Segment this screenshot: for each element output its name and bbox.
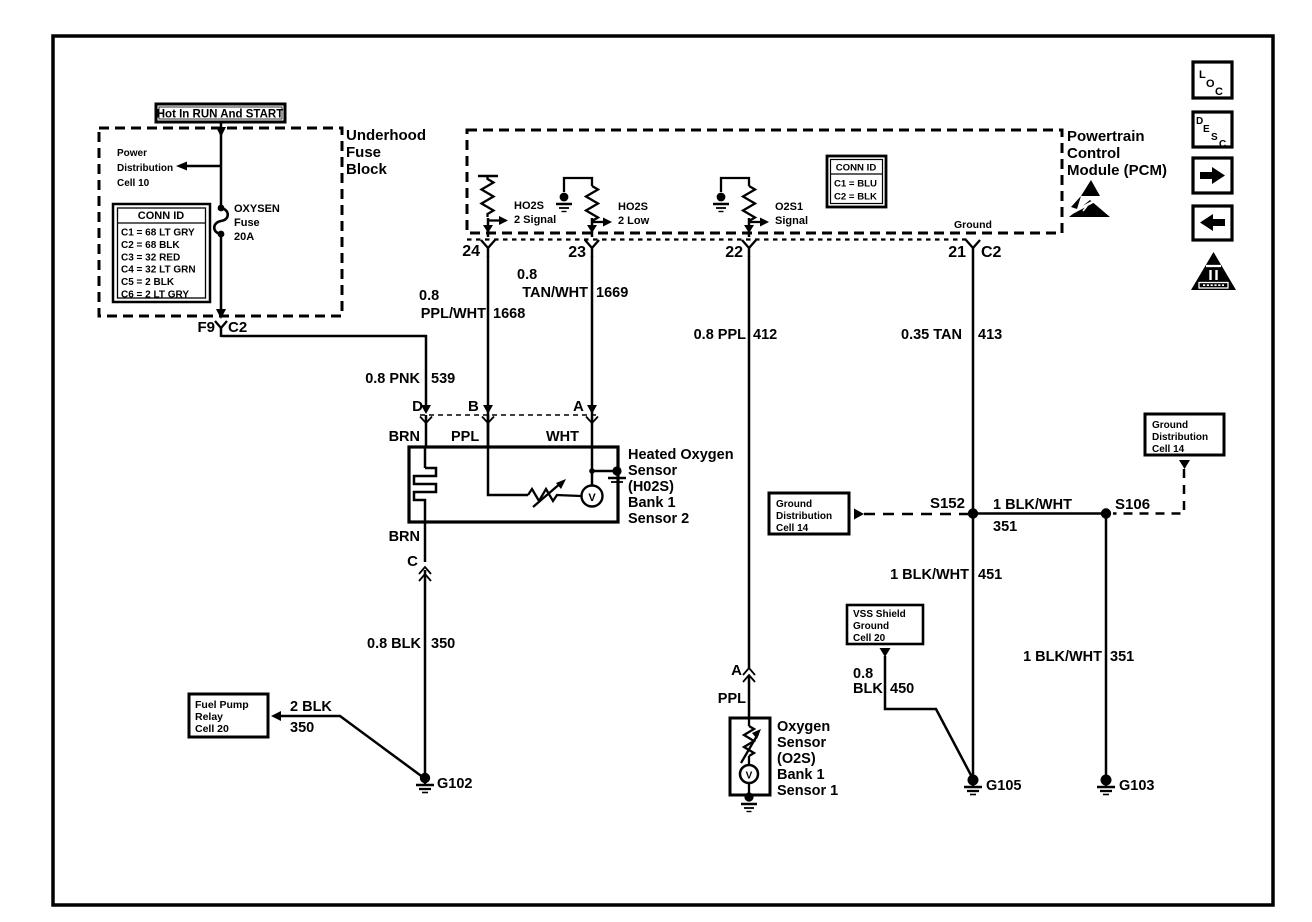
oxygen sensor O2S box bbox=[730, 718, 770, 795]
svg-text:C: C bbox=[1215, 86, 1223, 98]
connector row D B A (dashed) bbox=[420, 414, 598, 416]
ESD sensitivity symbol bbox=[1068, 180, 1110, 217]
icon back arrow bbox=[1193, 206, 1232, 240]
svg-text:G103: G103 bbox=[1119, 778, 1154, 794]
svg-text:Cell 20: Cell 20 bbox=[853, 633, 886, 644]
svg-text:L: L bbox=[1199, 69, 1206, 81]
wire 2 BLK 350 from fuel pump relay bbox=[271, 699, 424, 778]
svg-text:F9: F9 bbox=[197, 319, 215, 336]
fuse OXYSEN 20A bbox=[214, 203, 280, 243]
svg-text:1669: 1669 bbox=[596, 285, 628, 301]
svg-text:C4 = 32 LT GRN: C4 = 32 LT GRN bbox=[121, 265, 196, 276]
svg-text:Ground: Ground bbox=[853, 621, 889, 632]
svg-text:Power: Power bbox=[117, 148, 147, 159]
label Oxygen Sensor (O2S) Bank 1 Sensor 1 bbox=[777, 719, 838, 799]
svg-text:Sensor 1: Sensor 1 bbox=[777, 783, 838, 799]
svg-text:D: D bbox=[412, 398, 423, 415]
svg-text:Fuse: Fuse bbox=[346, 144, 381, 161]
svg-text:A: A bbox=[731, 662, 742, 679]
svg-text:O2S1: O2S1 bbox=[775, 201, 803, 213]
svg-text:(O2S): (O2S) bbox=[777, 751, 816, 767]
svg-text:0.8: 0.8 bbox=[853, 666, 873, 682]
svg-text:1 BLK/WHT: 1 BLK/WHT bbox=[890, 567, 969, 583]
svg-text:0.8: 0.8 bbox=[419, 288, 439, 304]
svg-text:21: 21 bbox=[948, 244, 966, 261]
svg-text:Distribution: Distribution bbox=[117, 163, 173, 174]
internal ground (HO2S case) bbox=[608, 466, 626, 482]
svg-text:B: B bbox=[468, 398, 479, 415]
label Heated Oxygen Sensor (H02S) Bank 1 Sensor 2 bbox=[628, 447, 734, 527]
svg-text:Cell 20: Cell 20 bbox=[195, 723, 229, 735]
svg-text:BLK: BLK bbox=[853, 681, 883, 697]
svg-text:C1 = 68 LT GRY: C1 = 68 LT GRY bbox=[121, 228, 195, 239]
svg-text:1 BLK/WHT: 1 BLK/WHT bbox=[1023, 649, 1102, 665]
svg-text:C1 = BLU: C1 = BLU bbox=[834, 179, 877, 190]
svg-text:A: A bbox=[573, 398, 584, 415]
wire 0.8 BLK 350 to G102 bbox=[367, 570, 455, 777]
PCM internal resistor O2S1 Signal with ground bbox=[713, 178, 808, 237]
svg-text:Ground: Ground bbox=[776, 499, 812, 510]
ground distribution box (left) bbox=[769, 493, 849, 534]
underhood fuse block dashed box bbox=[99, 128, 342, 316]
svg-text:413: 413 bbox=[978, 327, 1002, 343]
svg-text:350: 350 bbox=[290, 720, 314, 736]
svg-text:S152: S152 bbox=[930, 495, 965, 512]
splice S106 bbox=[1101, 496, 1150, 519]
svg-text:Cell 14: Cell 14 bbox=[776, 523, 809, 534]
svg-text:Oxygen: Oxygen bbox=[777, 719, 830, 735]
svg-text:351: 351 bbox=[993, 519, 1017, 535]
svg-text:1 BLK/WHT: 1 BLK/WHT bbox=[993, 497, 1072, 513]
svg-text:Relay: Relay bbox=[195, 711, 223, 723]
svg-text:0.8: 0.8 bbox=[517, 267, 537, 283]
PCM internal resistor HO2S 2 Low with ground bbox=[556, 178, 650, 237]
wire B into HO2S bbox=[488, 415, 528, 495]
svg-text:2 Low: 2 Low bbox=[618, 215, 650, 227]
wire S152 to S106, circuit 1 BLK/WHT 351 bbox=[973, 497, 1106, 535]
ground G105 bbox=[964, 775, 1021, 795]
svg-text:20A: 20A bbox=[234, 231, 254, 243]
svg-text:BRN: BRN bbox=[389, 429, 420, 445]
icon LOC bbox=[1193, 62, 1232, 98]
svg-text:Block: Block bbox=[346, 161, 388, 178]
svg-text:E: E bbox=[1203, 124, 1210, 135]
svg-text:0.35 TAN: 0.35 TAN bbox=[901, 327, 962, 343]
svg-text:539: 539 bbox=[431, 371, 455, 387]
wire C2 to connector D, circuit 0.8 PNK 539 bbox=[221, 336, 455, 408]
svg-text:Signal: Signal bbox=[775, 215, 808, 227]
svg-text:CONN ID: CONN ID bbox=[138, 210, 185, 222]
connector A (O2S) bbox=[718, 662, 755, 718]
svg-text:451: 451 bbox=[978, 567, 1002, 583]
svg-text:2 Signal: 2 Signal bbox=[514, 214, 556, 226]
wire S152 to G105, circuit 1 BLK/WHT 451 bbox=[890, 514, 1002, 780]
wire A into HO2S to internal ground bbox=[589, 415, 616, 474]
svg-text:Ground: Ground bbox=[954, 219, 992, 231]
svg-text:350: 350 bbox=[431, 636, 455, 652]
wire pin 23 to A, circuit 0.8 TAN/WHT 1669 bbox=[517, 256, 628, 415]
icon forward arrow bbox=[1193, 158, 1232, 193]
svg-text:Ground: Ground bbox=[1152, 420, 1188, 431]
svg-text:Underhood: Underhood bbox=[346, 127, 426, 144]
splice S152 bbox=[930, 495, 978, 519]
label Powertrain Control Module (PCM) bbox=[1067, 128, 1167, 179]
svg-text:412: 412 bbox=[753, 327, 777, 343]
O2S voltage source V bbox=[740, 765, 758, 796]
svg-text:C6 = 2 LT GRY: C6 = 2 LT GRY bbox=[121, 290, 189, 301]
svg-text:0.8 BLK: 0.8 BLK bbox=[367, 636, 422, 652]
svg-text:450: 450 bbox=[890, 681, 914, 697]
connector A (top) bbox=[546, 398, 598, 445]
svg-text:C2 = 68 BLK: C2 = 68 BLK bbox=[121, 240, 180, 251]
connector table CONN ID (PCM) bbox=[827, 156, 886, 207]
pin 21 connector C2 bbox=[948, 240, 1001, 261]
dashed wire S106 to ground distribution (right) bbox=[1113, 460, 1190, 514]
svg-text:22: 22 bbox=[725, 244, 743, 261]
svg-text:G102: G102 bbox=[437, 776, 472, 792]
svg-text:Sensor: Sensor bbox=[628, 463, 678, 479]
pin 24 connector bbox=[462, 240, 495, 260]
wire pin 22 to O2S, circuit 0.8 PPL 412 bbox=[694, 256, 778, 668]
connector B bbox=[451, 398, 494, 445]
svg-text:(H02S): (H02S) bbox=[628, 479, 674, 495]
wire hot feed into fuse block bbox=[220, 122, 223, 208]
svg-text:BRN: BRN bbox=[389, 529, 420, 545]
svg-text:VSS Shield: VSS Shield bbox=[853, 609, 906, 620]
svg-text:Module (PCM): Module (PCM) bbox=[1067, 162, 1167, 179]
heater element inside HO2S bbox=[414, 447, 436, 522]
svg-text:Fuel Pump: Fuel Pump bbox=[195, 699, 249, 711]
svg-text:Hot In RUN And START: Hot In RUN And START bbox=[157, 109, 283, 121]
svg-text:C3 = 32 RED: C3 = 32 RED bbox=[121, 252, 180, 263]
svg-text:S106: S106 bbox=[1115, 496, 1150, 513]
pin 22 connector bbox=[725, 240, 756, 261]
svg-text:Distribution: Distribution bbox=[1152, 432, 1208, 443]
svg-text:Powertrain: Powertrain bbox=[1067, 128, 1145, 145]
label Hot In RUN And START bbox=[156, 104, 285, 122]
svg-text:Fuse: Fuse bbox=[234, 217, 260, 229]
wire fuse to fuse-block edge bbox=[220, 234, 223, 312]
svg-text:C2: C2 bbox=[981, 244, 1002, 261]
svg-text:0.8 PNK: 0.8 PNK bbox=[365, 371, 420, 387]
wire S106 to G103, circuit 1 BLK/WHT 351 bbox=[1023, 514, 1134, 780]
svg-text:V: V bbox=[588, 492, 596, 504]
wire BRN below HO2S bbox=[389, 522, 425, 562]
svg-text:PPL: PPL bbox=[718, 691, 746, 707]
svg-text:23: 23 bbox=[568, 244, 586, 261]
powertrain control module dashed box bbox=[467, 130, 1062, 233]
variable resistor (sensing element) bbox=[528, 479, 581, 507]
PCM internal resistor HO2S 2 Signal bbox=[478, 176, 556, 237]
dashed wire to S152 bbox=[854, 509, 968, 520]
svg-text:G105: G105 bbox=[986, 778, 1021, 794]
icon DESC bbox=[1193, 112, 1232, 150]
svg-text:Sensor 2: Sensor 2 bbox=[628, 511, 689, 527]
svg-text:Control: Control bbox=[1067, 145, 1120, 162]
connector C bbox=[407, 553, 431, 581]
svg-text:Cell 10: Cell 10 bbox=[117, 178, 150, 189]
svg-text:O: O bbox=[1206, 78, 1215, 90]
svg-text:Distribution: Distribution bbox=[776, 511, 832, 522]
connector F9 / C2 bbox=[197, 319, 247, 337]
svg-text:0.8 PPL: 0.8 PPL bbox=[694, 327, 747, 343]
voltage source V bbox=[582, 471, 603, 507]
label Underhood Fuse Block bbox=[346, 127, 426, 178]
ground distribution box (right) bbox=[1145, 414, 1224, 455]
svg-text:Bank 1: Bank 1 bbox=[777, 767, 825, 783]
arrow at fuse block exit bbox=[216, 309, 226, 319]
svg-text:C2 = BLK: C2 = BLK bbox=[834, 192, 877, 203]
ground G102 bbox=[416, 773, 472, 793]
svg-text:Bank 1: Bank 1 bbox=[628, 495, 676, 511]
wire VSS shield 0.8 BLK 450 to G105 bbox=[853, 648, 973, 779]
wire pin 21, circuit 0.35 TAN 413 bbox=[901, 248, 1002, 513]
VSS shield ground box bbox=[847, 605, 923, 644]
heated oxygen sensor HO2S box bbox=[409, 447, 618, 522]
svg-text:Cell 14: Cell 14 bbox=[1152, 444, 1185, 455]
svg-text:TAN/WHT: TAN/WHT bbox=[522, 285, 588, 301]
svg-text:Heated Oxygen: Heated Oxygen bbox=[628, 447, 734, 463]
svg-text:OXYSEN: OXYSEN bbox=[234, 203, 280, 215]
connector table CONN ID (fuse block) bbox=[113, 204, 210, 302]
svg-text:2 BLK: 2 BLK bbox=[290, 699, 332, 715]
svg-text:Sensor: Sensor bbox=[777, 735, 827, 751]
connector D bbox=[389, 398, 432, 447]
svg-text:C5 = 2 BLK: C5 = 2 BLK bbox=[121, 277, 175, 288]
svg-text:WHT: WHT bbox=[546, 429, 579, 445]
svg-text:PPL: PPL bbox=[451, 429, 479, 445]
svg-text:24: 24 bbox=[462, 243, 480, 260]
svg-text:C2: C2 bbox=[228, 319, 247, 336]
ground G103 bbox=[1097, 775, 1154, 795]
arrow to Power Distribution Cell 10 bbox=[117, 148, 221, 189]
svg-text:1668: 1668 bbox=[493, 306, 525, 322]
svg-text:C: C bbox=[1219, 139, 1226, 150]
icon DVOM warning triangle bbox=[1191, 252, 1236, 290]
O2S case ground bbox=[741, 792, 757, 811]
svg-text:HO2S: HO2S bbox=[618, 201, 648, 213]
svg-text:PPL/WHT: PPL/WHT bbox=[421, 306, 486, 322]
pin 23 connector bbox=[568, 240, 599, 261]
svg-text:351: 351 bbox=[1110, 649, 1134, 665]
svg-text:CONN ID: CONN ID bbox=[836, 163, 877, 174]
O2S sensing element (variable resistor) bbox=[741, 718, 761, 765]
wire pin 24 to B, circuit 0.8 PPL/WHT 1668 bbox=[419, 256, 525, 447]
svg-text:S: S bbox=[1211, 132, 1218, 143]
svg-text:V: V bbox=[746, 771, 753, 782]
svg-text:C: C bbox=[407, 553, 418, 570]
svg-text:HO2S: HO2S bbox=[514, 200, 544, 212]
PCM connector face dotted line bbox=[467, 238, 967, 240]
fuel pump relay box bbox=[189, 694, 268, 737]
